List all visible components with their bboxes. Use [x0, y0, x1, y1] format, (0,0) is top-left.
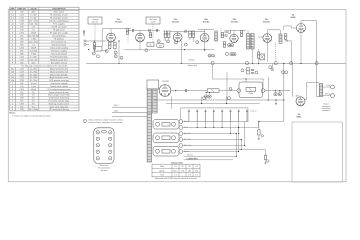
- svg-text:500pF: 500pF: [31, 32, 37, 34]
- svg-text:Output valve cathode: Output valve cathode: [50, 82, 67, 85]
- svg-text:9: 9: [12, 35, 13, 37]
- svg-text:160 v: 160 v: [173, 170, 177, 172]
- svg-text:2: 2: [115, 52, 116, 54]
- svg-text:Mains transformer link: Mains transformer link: [50, 68, 68, 71]
- svg-text:1: 1: [12, 53, 13, 55]
- svg-text:Anode decouple feed: Anode decouple feed: [50, 58, 67, 61]
- svg-text:Measured with 20,000 ohm per v: Measured with 20,000 ohm per volt meter …: [155, 177, 197, 180]
- svg-text:8 + 8µF: 8 + 8µF: [30, 56, 37, 58]
- svg-text:6: 6: [168, 41, 169, 43]
- svg-text:HT & speaker circuit tag: HT & speaker circuit tag: [49, 79, 68, 82]
- svg-text:Bias splitter network: Bias splitter network: [51, 61, 67, 64]
- svg-text:C670: C670: [20, 89, 24, 91]
- svg-text:C90: C90: [20, 86, 23, 88]
- svg-text:V2: V2: [181, 166, 183, 168]
- svg-text:5 mfd: 5 mfd: [31, 86, 36, 88]
- svg-text:3: 3: [115, 56, 116, 58]
- svg-text:Osc pad grid bias: Osc pad grid bias: [52, 35, 66, 37]
- svg-text:5: 5: [12, 92, 13, 94]
- svg-text:25 v: 25 v: [32, 95, 35, 97]
- svg-text:1.2: 1.2: [174, 175, 177, 177]
- svg-text:3: 3: [12, 47, 13, 49]
- svg-text:450v: 450v: [32, 12, 36, 14]
- svg-text:C84: C84: [20, 12, 23, 14]
- svg-text:C89: C89: [20, 98, 23, 100]
- svg-text:C89: C89: [20, 83, 23, 85]
- svg-text:Top view: Top view: [101, 170, 109, 172]
- svg-text:7: 7: [12, 83, 13, 85]
- svg-text:1.8: 1.8: [188, 175, 191, 177]
- svg-text:4: 4: [12, 38, 13, 40]
- svg-text:C118: C118: [20, 74, 24, 76]
- svg-text:C119: C119: [20, 69, 24, 71]
- svg-text:10: 10: [209, 55, 211, 57]
- svg-text:C119: C119: [20, 24, 24, 26]
- svg-text:Unless otherwise stated: resis: Unless otherwise stated: resistors in oh…: [88, 119, 123, 122]
- svg-text:6: 6: [12, 56, 13, 58]
- svg-text:Grid return coupling: Grid return coupling: [51, 49, 67, 52]
- svg-text:8: 8: [12, 86, 13, 88]
- svg-text:V4: V4: [195, 166, 197, 168]
- svg-text:C119: C119: [20, 56, 24, 58]
- svg-text:3: 3: [12, 109, 13, 111]
- svg-text:On/off switch & pilot lamp: On/off switch & pilot lamp: [49, 97, 69, 100]
- svg-text:DESCRIPTION: DESCRIPTION: [52, 9, 66, 11]
- svg-text:ECC83: ECC83: [231, 21, 238, 23]
- svg-text:C118: C118: [20, 80, 24, 82]
- svg-text:2: 2: [12, 50, 13, 52]
- svg-text:HT electrolytic smooth: HT electrolytic smooth: [50, 14, 68, 17]
- svg-text:10a: 10a: [11, 77, 14, 79]
- svg-text:VALUE: VALUE: [30, 8, 37, 11]
- svg-text:HT stage drive coupler: HT stage drive coupler: [50, 31, 68, 34]
- svg-text:C90: C90: [20, 29, 23, 31]
- svg-text:8 + 8µF: 8 + 8µF: [30, 15, 37, 17]
- svg-text:8 + 8µF: 8 + 8µF: [30, 18, 37, 20]
- svg-text:HT grid screen: HT grid screen: [53, 29, 65, 31]
- svg-text:The following components are s: The following components are subject to …: [21, 64, 68, 67]
- svg-text:Anode: Anode: [159, 169, 164, 172]
- svg-text:ECC83: ECC83: [172, 21, 179, 23]
- svg-text:1 Mfd: 1 Mfd: [31, 38, 36, 40]
- svg-text:C95: C95: [20, 92, 23, 94]
- svg-text:Drive to heater link: Drive to heater link: [51, 40, 66, 43]
- svg-text:Tone circuit network: Tone circuit network: [51, 52, 67, 55]
- svg-text:7: 7: [93, 53, 94, 55]
- svg-text:25 v: 25 v: [32, 101, 35, 103]
- svg-text:5: 5: [158, 41, 159, 43]
- svg-text:HT grid bias: HT grid bias: [54, 38, 64, 40]
- svg-text:7.2: 7.2: [195, 175, 198, 177]
- svg-text:C670: C670: [20, 32, 24, 34]
- svg-text:C88: C88: [20, 38, 23, 40]
- svg-text:Grid HT pot coupler: Grid HT pot coupler: [51, 26, 67, 29]
- svg-text:140 v: 140 v: [114, 111, 118, 113]
- svg-text:175: 175: [181, 170, 184, 172]
- svg-text:0.05 - 350v: 0.05 - 350v: [29, 21, 38, 23]
- svg-text:switch: switch: [150, 21, 155, 24]
- svg-text:PART NO: PART NO: [18, 8, 27, 11]
- svg-text:25 mfd: 25 mfd: [31, 83, 37, 85]
- svg-text:C118: C118: [20, 59, 24, 61]
- svg-text:9: 9: [12, 62, 13, 64]
- svg-text:Tremolo valve cathode: Tremolo valve cathode: [50, 85, 68, 88]
- svg-text:6.3 v: 6.3 v: [184, 121, 188, 123]
- svg-text:450v: 450v: [32, 62, 36, 64]
- svg-text:C90: C90: [20, 101, 23, 103]
- svg-text:185: 185: [188, 170, 191, 172]
- svg-text:ECC83: ECC83: [115, 21, 122, 23]
- svg-text:C119: C119: [20, 77, 24, 79]
- svg-text:6: 6: [12, 89, 13, 91]
- svg-text:1 Mfd: 1 Mfd: [31, 53, 36, 55]
- svg-text:10a: 10a: [11, 69, 14, 71]
- svg-text:250: 250: [195, 170, 198, 172]
- svg-text:Speaker field ckt & earth: Speaker field ckt & earth: [49, 91, 69, 94]
- svg-text:Mains transformer link: Mains transformer link: [50, 70, 68, 73]
- svg-text:1: 1: [106, 51, 107, 53]
- svg-text:50 v / 300v: 50 v / 300v: [29, 109, 38, 111]
- svg-text:6: 6: [12, 27, 13, 29]
- svg-text:0.1: 0.1: [32, 29, 35, 31]
- svg-text:W: W: [150, 45, 152, 47]
- svg-text:Smoothing electrolytic: Smoothing electrolytic: [50, 55, 68, 58]
- svg-text:7: 7: [12, 41, 13, 43]
- svg-text:5: 5: [12, 44, 13, 46]
- svg-text:Vib: Vib: [159, 45, 162, 47]
- svg-text:6.3 v a.c.: 6.3 v a.c.: [251, 110, 258, 112]
- svg-text:10b: 10b: [11, 71, 14, 73]
- svg-text:2: 2: [12, 106, 13, 108]
- svg-text:C119: C119: [20, 18, 24, 20]
- svg-text:1: 1: [12, 12, 13, 14]
- svg-text:Anode feed after choke: Anode feed after choke: [50, 76, 69, 79]
- svg-text:resistance: resistance: [322, 109, 330, 112]
- svg-text:OP transformer primary valve: OP transformer primary valve: [47, 88, 70, 91]
- svg-text:Valve: Valve: [160, 166, 164, 168]
- svg-text:C88: C88: [20, 95, 23, 97]
- svg-text:V1: V1: [174, 166, 176, 168]
- svg-text:Bias feed network: Bias feed network: [52, 43, 66, 46]
- svg-text:Output anode coupling: Output anode coupling: [50, 46, 68, 49]
- svg-text:240 v ~: 240 v ~: [114, 105, 120, 107]
- svg-text:V6 EZ80: V6 EZ80: [162, 81, 169, 83]
- svg-text:10 - 350v: 10 - 350v: [30, 77, 38, 79]
- svg-text:HT to supplies: HT to supplies: [53, 23, 65, 26]
- svg-text:0.02 - 350v: 0.02 - 350v: [29, 41, 38, 43]
- svg-text:8: 8: [176, 42, 177, 44]
- svg-text:3,4: 3,4: [11, 18, 14, 20]
- svg-text:5: 5: [12, 21, 13, 23]
- svg-text:1: 1: [12, 103, 13, 105]
- svg-text:C95: C95: [20, 50, 23, 52]
- svg-text:V3: V3: [188, 166, 190, 168]
- svg-text:4: 4: [121, 58, 122, 60]
- svg-text:500pF: 500pF: [31, 89, 37, 91]
- svg-text:10: 10: [12, 24, 14, 26]
- svg-text:C84: C84: [20, 62, 23, 64]
- svg-text:C670: C670: [20, 103, 24, 105]
- svg-text:25 v: 25 v: [32, 92, 35, 94]
- svg-text:ECC83: ECC83: [203, 21, 210, 23]
- svg-text:4: 4: [12, 95, 13, 97]
- svg-text:Voltages ±10%: Voltages ±10%: [186, 158, 198, 161]
- svg-text:10b: 10b: [11, 80, 14, 82]
- svg-text:7: 7: [12, 29, 13, 31]
- svg-text:Choke: Choke: [248, 93, 253, 95]
- svg-text:0.25 mfd 350v: 0.25 mfd 350v: [28, 35, 39, 37]
- svg-text:10 - 350v: 10 - 350v: [30, 69, 38, 71]
- svg-text:Phones: Phones: [189, 60, 195, 62]
- svg-text:C119: C119: [20, 15, 24, 17]
- svg-text:1. Values are subject to chan: 1. Values are subject to change without …: [12, 114, 51, 117]
- svg-text:Voltage Table: Voltage Table: [171, 161, 183, 164]
- svg-text:C88: C88: [20, 109, 23, 111]
- svg-text:25 v: 25 v: [32, 106, 35, 108]
- svg-text:8: 8: [12, 32, 13, 34]
- svg-text:0.25 mfd: 0.25 mfd: [30, 50, 37, 52]
- svg-text:selector: selector: [92, 21, 99, 24]
- svg-text:Earth tag & output socket: Earth tag & output socket: [49, 102, 70, 105]
- svg-text:C95: C95: [20, 106, 23, 108]
- svg-text:C89: C89: [20, 27, 23, 29]
- svg-text:Mains choke feed link: Mains choke feed link: [50, 74, 67, 76]
- svg-text:8: 8: [12, 59, 13, 61]
- svg-text:0.05 - 350: 0.05 - 350: [29, 24, 37, 26]
- svg-text:10 - 350v: 10 - 350v: [30, 71, 38, 73]
- svg-text:and are carbon; capacitors in: and are carbon; capacitors in microfarad…: [88, 121, 123, 124]
- svg-text:0.1: 0.1: [32, 44, 35, 46]
- svg-text:10 - 350v: 10 - 350v: [30, 74, 38, 76]
- svg-text:Mains dropper choke feeds: Mains dropper choke feeds: [48, 95, 70, 97]
- svg-text:1,2: 1,2: [11, 15, 14, 17]
- svg-text:Vib-Trem: Vib-Trem: [149, 18, 157, 21]
- svg-text:500pF: 500pF: [31, 47, 37, 49]
- svg-text:Phones: Phones: [187, 155, 193, 157]
- svg-text:25 v: 25 v: [32, 103, 35, 105]
- svg-text:HT electrolytic smooth: HT electrolytic smooth: [50, 17, 68, 20]
- svg-text:9: 9: [197, 42, 198, 44]
- svg-text:C119: C119: [20, 71, 24, 73]
- svg-text:2: 2: [12, 101, 13, 103]
- svg-text:11: 11: [212, 55, 214, 57]
- svg-text:C89: C89: [20, 41, 23, 43]
- svg-text:C88: C88: [20, 53, 23, 55]
- svg-text:7a: 7a: [12, 74, 14, 76]
- svg-text:Grid: Grid: [160, 175, 163, 177]
- svg-text:ECC83: ECC83: [263, 21, 270, 23]
- svg-text:25 v: 25 v: [32, 98, 35, 100]
- svg-text:3: 3: [12, 98, 13, 100]
- svg-text:Notes:: Notes:: [10, 112, 17, 115]
- svg-text:C118: C118: [20, 21, 24, 23]
- svg-text:C95: C95: [20, 35, 23, 37]
- svg-text:OP circuit fuse & link tag: OP circuit fuse & link tag: [49, 108, 69, 111]
- svg-text:C90: C90: [20, 44, 23, 46]
- svg-text:1: 1: [84, 121, 85, 123]
- svg-text:+ A.B.: + A.B.: [295, 94, 300, 97]
- svg-text:Voice coil & output jack: Voice coil & output jack: [50, 105, 69, 108]
- svg-text:0.05 - 350: 0.05 - 350: [29, 59, 37, 61]
- svg-text:Heater link: Heater link: [188, 64, 197, 67]
- svg-text:Cathode coupled bypass: Cathode coupled bypass: [49, 20, 69, 23]
- svg-text:0.02: 0.02: [32, 27, 36, 29]
- svg-text:C670: C670: [20, 47, 24, 49]
- svg-text:Mains switch: Mains switch: [54, 11, 64, 14]
- svg-text:10 - 350v: 10 - 350v: [30, 80, 38, 82]
- svg-text:3.75 Ω: 3.75 Ω: [325, 93, 331, 95]
- svg-text:Fuse link & speaker plugs: Fuse link & speaker plugs: [49, 101, 70, 103]
